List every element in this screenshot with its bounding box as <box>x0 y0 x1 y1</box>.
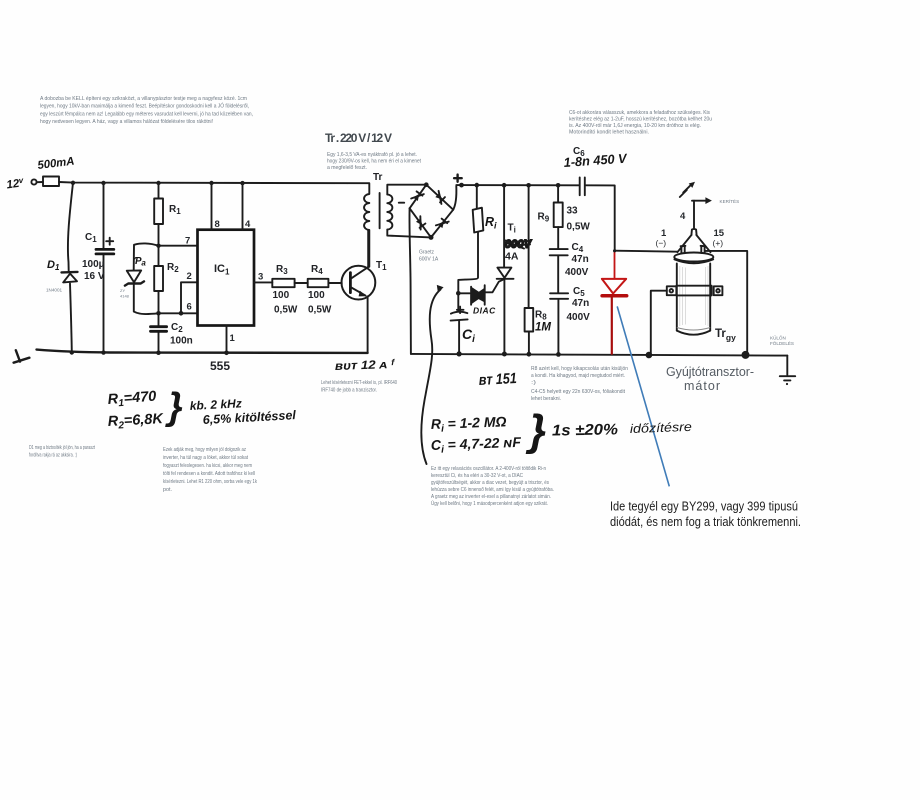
svg-text:100µ: 100µ <box>82 259 105 270</box>
svg-text:diódát, és nem fog a triak tön: diódát, és nem fog a triak tönkremenni. <box>610 514 801 529</box>
svg-text:555: 555 <box>210 359 230 373</box>
svg-text:A dobozba be KELL építeni egy: A dobozba be KELL építeni egy szikraközt… <box>40 96 247 102</box>
svg-text:6: 6 <box>187 302 192 313</box>
diode red annotation BY299 <box>602 251 627 353</box>
svg-text:4: 4 <box>245 219 251 230</box>
svg-text:Tr . 220 V / 12 V: Tr . 220 V / 12 V <box>325 131 392 145</box>
wire terminal 15 to rail <box>705 251 747 355</box>
svg-text:fordítva rakja rá az akksira.: fordítva rakja rá az akksira. :) <box>29 453 77 459</box>
svg-text:fogyaszt feleslegesen. ha kics: fogyaszt feleslegesen. ha kicsi, akkor m… <box>163 463 252 469</box>
svg-text:4A: 4A <box>505 251 519 263</box>
svg-text::): :) <box>531 380 537 386</box>
wire pin3 <box>254 281 272 283</box>
wire pin6 <box>159 312 198 314</box>
svg-text:legyen, hogy 10kV-ban maximálj: legyen, hogy 10kV-ban maximálja a kimenő… <box>40 103 249 110</box>
ignition coil mounting band <box>676 286 711 296</box>
node junction R8-rail <box>527 352 532 357</box>
svg-text:DIAC: DIAC <box>473 306 496 316</box>
svg-text:inverter, ha túl nagy a löket,: inverter, ha túl nagy a löket, akkor túl… <box>163 455 249 461</box>
note: Ezek adjak meg text <box>163 447 257 493</box>
svg-text:Egy 1,6-3,5 VA-es nyáktrafó pl: Egy 1,6-3,5 VA-es nyáktrafó pl. jó a leh… <box>327 152 417 158</box>
svg-text:7: 7 <box>185 236 190 247</box>
svg-text:4148: 4148 <box>120 294 130 299</box>
svg-text:100: 100 <box>308 290 325 301</box>
ignition coil cone <box>677 235 710 252</box>
node bridge top <box>424 182 429 187</box>
label plus handwritten <box>454 175 462 182</box>
diode bridge arm top-right <box>426 185 453 210</box>
svg-text:2: 2 <box>187 271 192 282</box>
node junction pin1-rail <box>224 351 229 356</box>
wire R3-R4 <box>295 282 308 284</box>
resistor R3 <box>272 279 294 287</box>
node junction pin7 <box>156 244 160 248</box>
wire C2 branch <box>158 313 160 352</box>
svg-text:ʙᴜᴛ 12 ᴀ ᶠ: ʙᴜᴛ 12 ᴀ ᶠ <box>335 357 396 373</box>
wire band ear to rail <box>651 291 667 355</box>
node junction D1 top <box>71 181 75 185</box>
op-amp U1 555 IC body <box>198 230 255 326</box>
band ear right <box>714 286 723 295</box>
node junction band-rail <box>646 352 653 359</box>
coil stud terminal 15 <box>701 246 706 253</box>
svg-text:időzítésre: időzítésre <box>630 420 692 436</box>
ignition coil Trgy tip <box>691 229 696 235</box>
wire diac to gate <box>485 279 504 292</box>
node junction Ri top <box>475 183 480 188</box>
wire secondary top <box>387 185 426 195</box>
capacitor Ci plus sign <box>457 307 464 314</box>
wire diac left lead <box>458 292 470 294</box>
svg-text:mátor: mátor <box>684 379 720 393</box>
wire bottom rail left <box>37 350 368 353</box>
svg-text:47n: 47n <box>572 254 589 265</box>
wire C1 branch <box>103 183 105 353</box>
ground mark bottom-left <box>14 350 30 363</box>
wire pin2 <box>181 282 198 313</box>
zener diode Pa <box>127 270 141 282</box>
svg-text:3: 3 <box>258 272 263 283</box>
svg-text:R8 azért kell, hogy kikapcsolá: R8 azért kell, hogy kikapcsolás után kis… <box>531 366 628 372</box>
wire D1 branch <box>68 183 73 353</box>
label minus <box>399 202 404 204</box>
svg-text:600V 1A: 600V 1A <box>419 257 439 263</box>
note: relaxacios oszcillator text <box>431 466 554 507</box>
svg-text:8: 8 <box>215 219 220 230</box>
svg-text:Gyújtótransztor-: Gyújtótransztor- <box>666 365 754 379</box>
diode bridge arm bottom-right <box>431 210 453 238</box>
capacitor Ci <box>451 312 468 314</box>
note: blue callout text BY299 <box>610 499 801 530</box>
svg-text:kísérletezni. Lehet R1 220 ohm: kísérletezni. Lehet R1 220 ohm, sorba ve… <box>163 479 257 485</box>
wire top rail left <box>37 182 370 183</box>
resistor R8 <box>528 185 530 308</box>
svg-text:Graetz: Graetz <box>419 250 435 256</box>
wire T1 emitter down <box>367 296 369 353</box>
svg-text:400V: 400V <box>567 312 591 323</box>
diode D1 <box>62 271 78 274</box>
node junction C2-rail <box>156 350 161 355</box>
svg-text:}: } <box>525 406 546 455</box>
spark lightning icon <box>680 185 691 197</box>
ignition coil rim cap <box>674 253 713 262</box>
transistor T1 <box>342 266 376 300</box>
diode bridge arm bottom-left <box>410 208 431 237</box>
svg-text:4: 4 <box>680 211 686 222</box>
annotation curvy arrow to Ci <box>421 290 440 465</box>
node junction red diode top <box>613 249 616 252</box>
svg-text:ʙᴛ 151: ʙᴛ 151 <box>478 370 517 389</box>
wire R4-base <box>328 282 341 284</box>
svg-text:0,5W: 0,5W <box>567 222 591 233</box>
wire pin7 <box>159 245 198 247</box>
transformer Tr primary winding <box>364 183 369 267</box>
capacitor C1 <box>96 249 114 254</box>
svg-text:kerítéshez elég az 1-2uF, hoss: kerítéshez elég az 1-2uF, hosszú kerítés… <box>569 117 712 123</box>
svg-text:Motorindító kondit lehet haszn: Motorindító kondit lehet használni. <box>569 130 649 136</box>
svg-text:100n: 100n <box>170 336 193 347</box>
node junction C1 top <box>101 181 105 185</box>
wire bridge minus down <box>409 208 410 354</box>
svg-text:A graetz meg az inverter el-es: A graetz meg az inverter el-esel a pilla… <box>431 494 551 500</box>
wire to coil terminal 1 <box>615 251 678 252</box>
svg-text:16 V: 16 V <box>84 271 105 282</box>
svg-text:lehúzza sebre C6 innenső felét: lehúzza sebre C6 innenső felét, ami így … <box>431 487 554 493</box>
node junction Ti top <box>502 183 507 188</box>
capacitor C2 <box>151 327 167 332</box>
wire bridge plus up <box>453 186 456 210</box>
svg-text:Úgy kell belőni, hogy 1 másodp: Úgy kell belőni, hogy 1 másodpercenként … <box>431 500 548 507</box>
svg-text:400V: 400V <box>565 267 589 278</box>
svg-text:tölti fel rendesen a kondit. A: tölti fel rendesen a kondit. Adott trafó… <box>163 471 255 477</box>
node junction pin6-R2 <box>156 311 161 316</box>
svg-text:keresztül Ci, és ha eléri a 30: keresztül Ci, és ha eléri a 30-32 V-ot, … <box>431 473 523 479</box>
node junction D1-rail <box>70 350 74 354</box>
node junction R8 top <box>526 183 531 188</box>
svg-text:100: 100 <box>273 290 290 301</box>
wire pin1 <box>226 326 228 353</box>
svg-text:IRF740 de jobb a tranzisztor.: IRF740 de jobb a tranzisztor. <box>321 388 377 394</box>
svg-text:(+): (+) <box>713 238 724 248</box>
svg-text:1M: 1M <box>535 322 551 334</box>
node junction plus-rail <box>459 183 464 188</box>
annotation blue callout line <box>617 306 669 486</box>
wire top rail right <box>456 185 614 251</box>
svg-text:pot.: pot. <box>163 487 172 493</box>
node 12V input terminal <box>31 179 36 184</box>
note: transformer hint text <box>327 152 422 171</box>
svg-text:}: } <box>165 386 183 428</box>
node junction pin8 top <box>209 181 213 185</box>
svg-text:gyújtófeszültségét, akkor a di: gyújtófeszültségét, akkor a diac vezet, … <box>431 480 549 486</box>
svg-text:(−): (−) <box>656 238 667 248</box>
node junction C1-rail <box>101 350 105 354</box>
note: top-right C6 paragraph <box>569 110 712 136</box>
svg-text:C4-C5 helyett egy 22n 630V-os,: C4-C5 helyett egy 22n 630V-os, fóliakond… <box>531 389 626 395</box>
wire coil HV terminal 4 <box>693 201 695 228</box>
svg-text:KERÍTÉS: KERÍTÉS <box>720 198 740 204</box>
node junction C5-rail <box>556 352 561 357</box>
node junction pin4 top <box>240 181 244 185</box>
wire T1 collector up <box>367 230 369 267</box>
node junction diac left <box>456 291 461 296</box>
diac D2 <box>471 285 485 305</box>
arrow to fence <box>692 200 706 202</box>
resistor R9 <box>557 185 559 202</box>
node junction Ti-rail <box>502 352 507 357</box>
note: R8 azert kell text <box>531 366 628 402</box>
svg-text:Tr: Tr <box>373 172 383 183</box>
diode bridge arm top-left <box>410 185 427 209</box>
wire bottom rail right <box>411 354 787 356</box>
transformer Tr secondary winding <box>387 194 392 229</box>
svg-text:33: 33 <box>567 206 579 217</box>
svg-text:D1 meg a biztosíték jól jön, h: D1 meg a biztosíték jól jön, ha a parasz… <box>29 445 95 451</box>
coil stud terminal 1 <box>681 246 686 253</box>
svg-text:Ezek adják meg, hogy milyen jó: Ezek adják meg, hogy milyen jól dolgozik… <box>163 447 246 453</box>
band ear left <box>667 286 677 295</box>
svg-text:0,5W: 0,5W <box>274 305 298 316</box>
svg-text:Ƥa: Ƥa <box>134 256 146 268</box>
node junction R1 top <box>156 181 160 185</box>
wire Ri to Ci <box>458 233 478 312</box>
wire pin4 <box>242 183 244 230</box>
svg-text:is. Az 400V-ról már 1,6J energ: is. Az 400V-ról már 1,6J energia, 10-20 … <box>569 123 701 129</box>
svg-text:a kondi. Ha kihagyod, majd meg: a kondi. Ha kihagyod, majd megtudod miér… <box>531 373 625 379</box>
ground far right <box>786 356 788 375</box>
thyristor Ti <box>503 185 505 267</box>
ignition coil body <box>677 264 710 331</box>
svg-text:ZY: ZY <box>120 288 125 293</box>
svg-text:47n: 47n <box>572 298 589 309</box>
svg-text:lehet berakni.: lehet berakni. <box>531 396 561 402</box>
svg-text:0,5W: 0,5W <box>308 305 332 316</box>
svg-text:1: 1 <box>230 333 236 344</box>
svg-text:a megfelelő feszt.: a megfelelő feszt. <box>327 165 367 171</box>
note: D1 hint text <box>29 445 95 459</box>
svg-text:FÖLDELÉS: FÖLDELÉS <box>770 340 794 346</box>
wire secondary bottom <box>387 230 431 238</box>
node bridge bottom <box>429 235 434 240</box>
node junction 15-rail <box>742 351 750 359</box>
svg-text:hogy 230/9V-os kell, ha nem ér: hogy 230/9V-os kell, ha nem éri el a kim… <box>327 159 422 165</box>
resistor R4 <box>308 279 329 287</box>
node junction Ci-rail <box>457 351 462 356</box>
transformer Tr core <box>379 193 381 228</box>
node junction R9 top <box>556 183 561 188</box>
capacitor C5 <box>550 293 568 299</box>
svg-text:1s ±20%: 1s ±20% <box>552 421 619 439</box>
wire zener branch <box>134 243 159 314</box>
fuse F1 <box>43 177 59 187</box>
svg-text:KÜLÖN: KÜLÖN <box>770 335 786 341</box>
svg-text:egy leszúrt fémpálca nem az! L: egy leszúrt fémpálca nem az! Legalább eg… <box>40 111 253 117</box>
capacitor C6 <box>580 177 585 195</box>
note: FET hint text <box>321 380 397 394</box>
resistor R1 <box>158 183 160 246</box>
wire pin8 <box>211 183 213 230</box>
svg-text:1N4001: 1N4001 <box>46 288 63 293</box>
node junction pin2-pin6 <box>179 311 184 316</box>
resistor Ri <box>476 185 478 208</box>
capacitor C4 <box>550 249 568 255</box>
svg-text:C6-ot akkorára válasszuk, amek: C6-ot akkorára válasszuk, amekkora a fel… <box>569 110 710 116</box>
svg-text:Ide tegyél egy BY299, vagy 399: Ide tegyél egy BY299, vagy 399 tipusú <box>610 499 798 514</box>
svg-text:Lehet kísérletezni FET-ekkel i: Lehet kísérletezni FET-ekkel is, pl. IRF… <box>321 380 397 386</box>
resistor R2 <box>158 246 160 314</box>
svg-text:Ez itt egy relaxációs oszcillá: Ez itt egy relaxációs oszcillátor. A 2-4… <box>431 466 546 472</box>
note: top-left warning paragraph <box>40 96 253 125</box>
svg-text:hogy nedvesen legyen. A ház, v: hogy nedvesen legyen. A ház, vagy a vill… <box>40 119 213 125</box>
